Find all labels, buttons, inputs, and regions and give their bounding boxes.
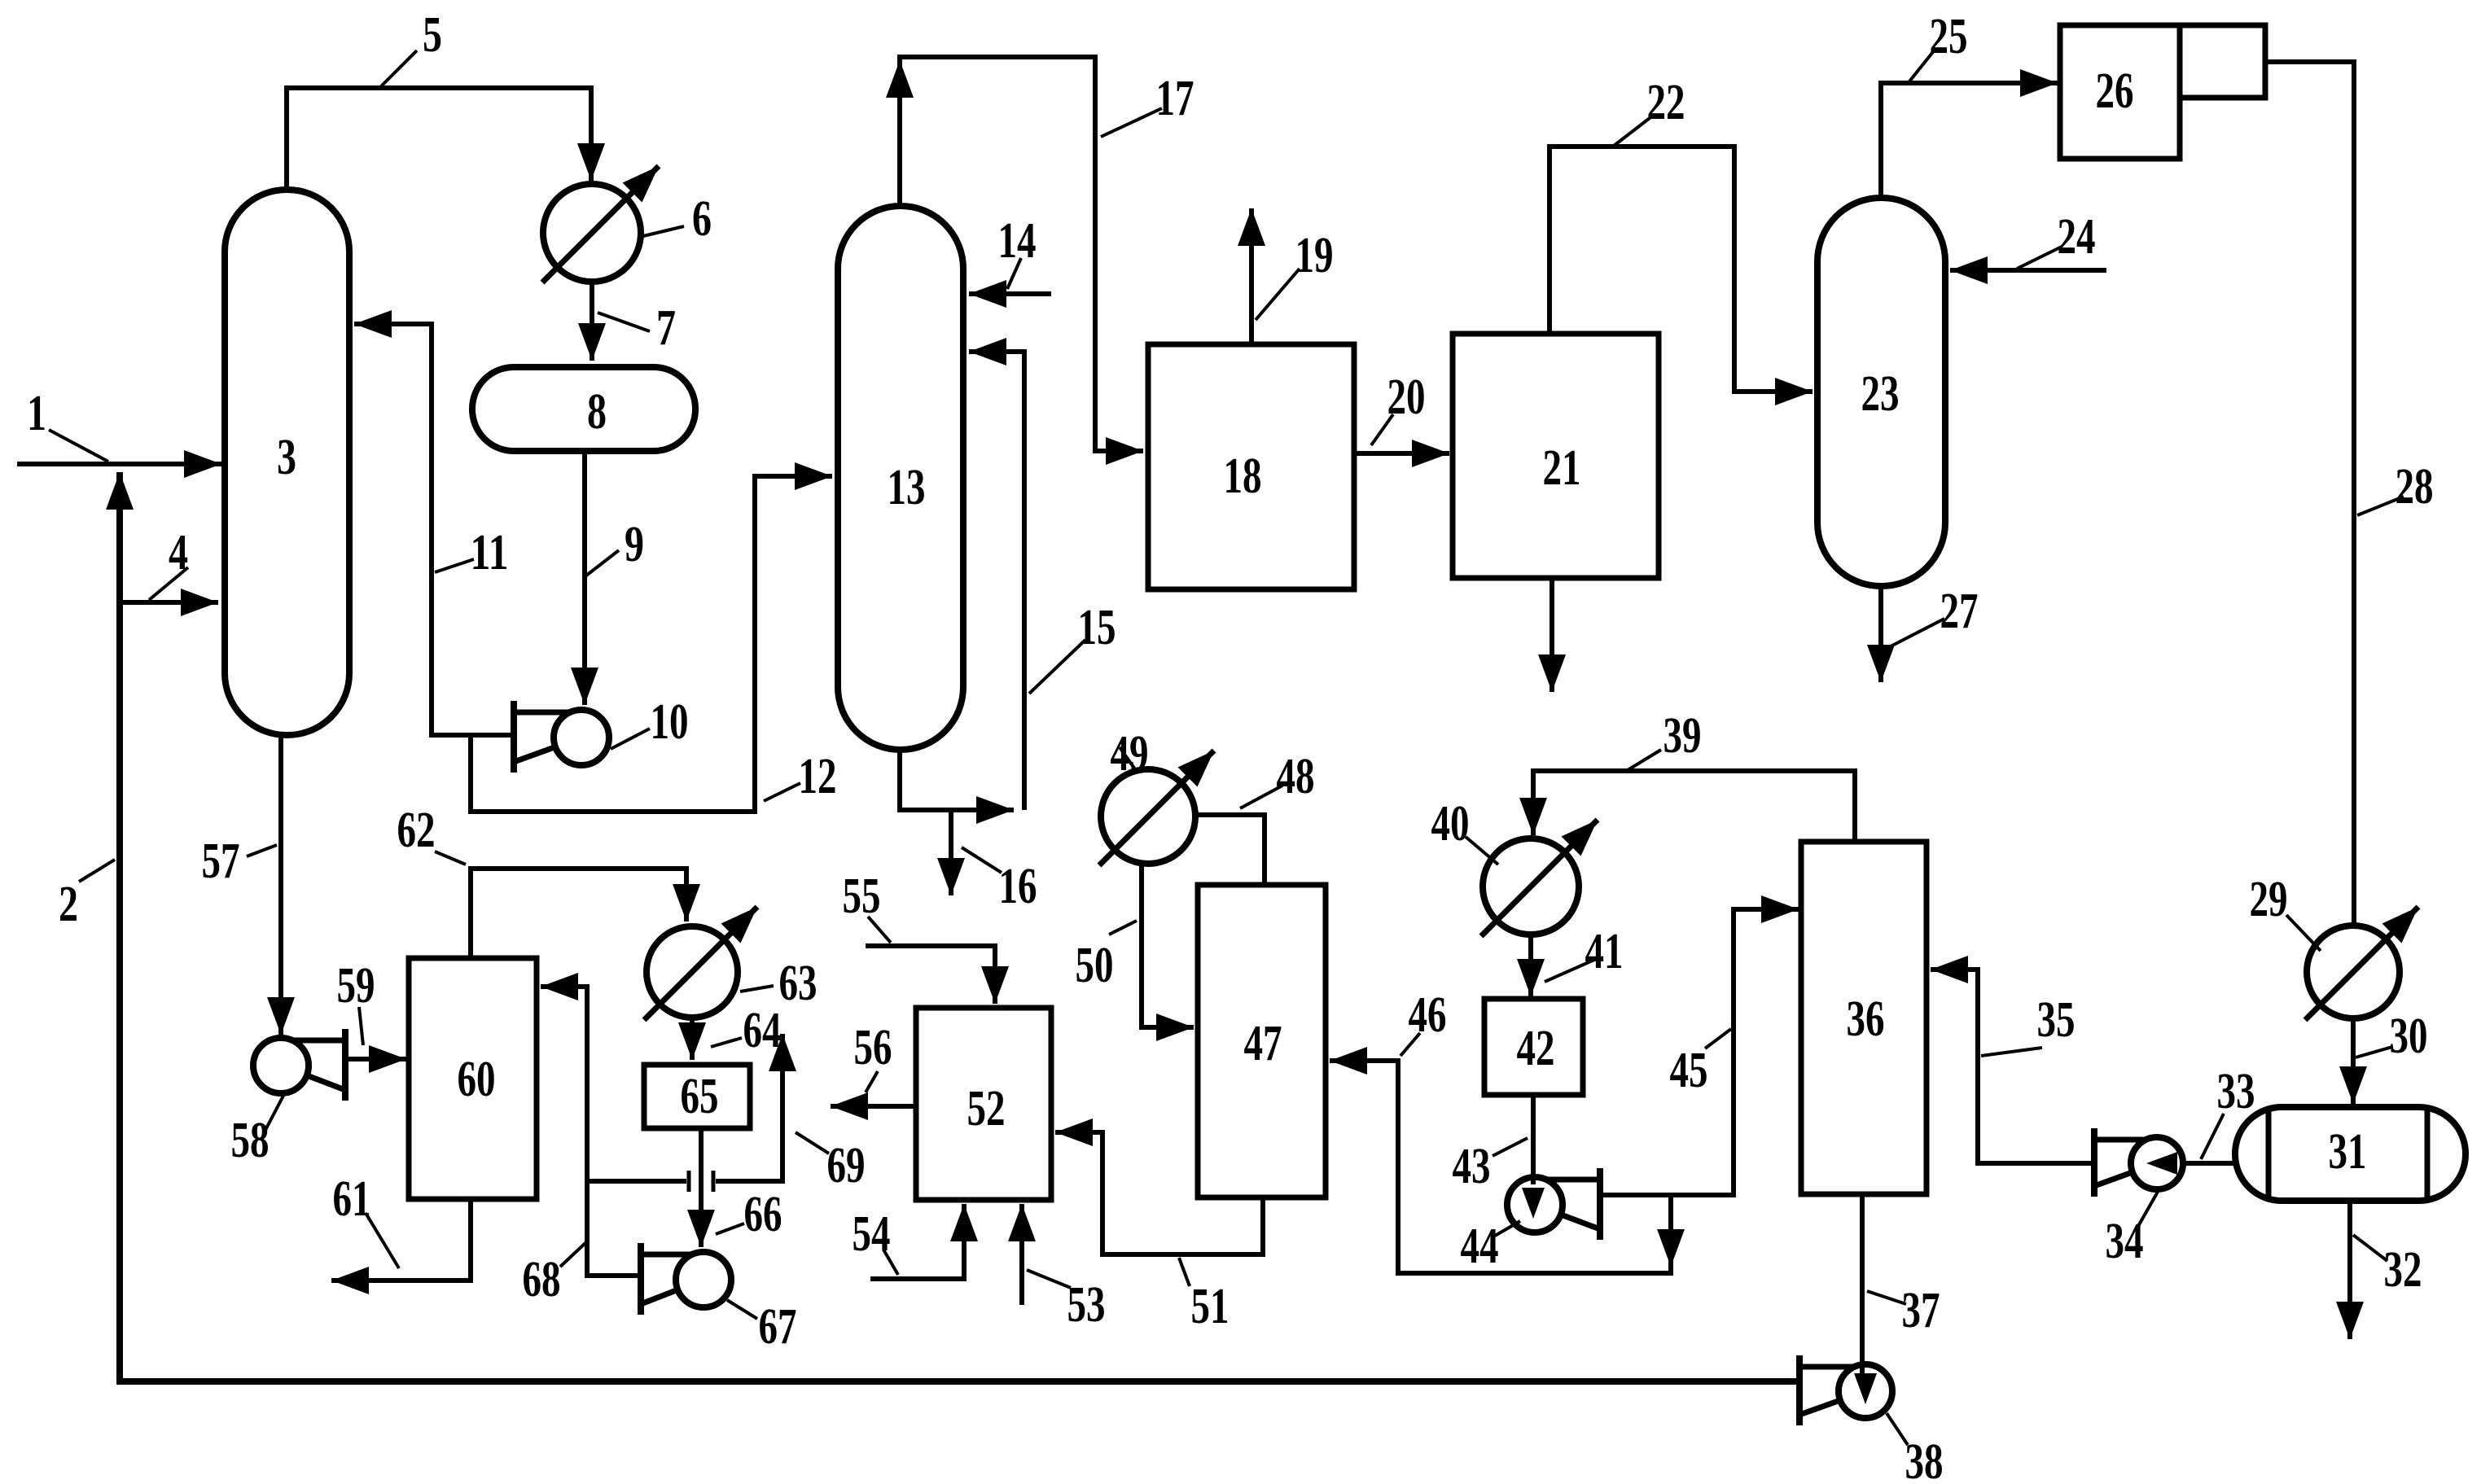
leader line for label 35 xyxy=(1981,1048,2042,1056)
svg-text:37: 37 xyxy=(1902,1283,1940,1338)
wire stream 54 (into box 52 bottom) xyxy=(870,1204,964,1279)
svg-text:11: 11 xyxy=(471,525,509,580)
leader line for label 34 xyxy=(2137,1192,2158,1228)
svg-text:14: 14 xyxy=(998,213,1037,269)
leader line for label 2 xyxy=(79,860,115,882)
leader line for label 12 xyxy=(764,783,800,801)
wire stream 57 (column 3 bottoms to pump 58) xyxy=(278,733,283,1035)
svg-text:58: 58 xyxy=(231,1113,270,1168)
wire stream 69 (branch upward, jumps over line 66) xyxy=(587,1034,782,1181)
wire stream 27 (column 23 bottoms) xyxy=(1878,586,1883,682)
arrowhead on stream 17 riser xyxy=(886,60,914,98)
svg-text:21: 21 xyxy=(1543,440,1581,496)
wire stream 66 (box 65 to pump 67) xyxy=(699,1128,704,1247)
wire stream 33 (drum 31 to pump 34) xyxy=(2183,1161,2235,1166)
wire stream 32 (drum 31 bottoms) xyxy=(2347,1201,2352,1339)
leader line for label 6 xyxy=(643,226,684,236)
svg-text:54: 54 xyxy=(853,1206,891,1262)
svg-text:36: 36 xyxy=(1847,992,1885,1047)
svg-text:32: 32 xyxy=(2384,1242,2422,1298)
svg-text:1: 1 xyxy=(27,386,46,441)
leader line for label 58 xyxy=(265,1096,283,1132)
svg-text:57: 57 xyxy=(202,834,240,889)
box 26 xyxy=(2060,25,2180,159)
leader line for label 37 xyxy=(1867,1291,1906,1304)
svg-text:69: 69 xyxy=(827,1138,866,1193)
leader line for label 15 xyxy=(1029,640,1085,694)
svg-text:35: 35 xyxy=(2037,992,2076,1048)
wire stream 62 (box 60 top to exchanger 63) xyxy=(471,869,686,958)
svg-text:39: 39 xyxy=(1663,708,1702,764)
svg-text:10: 10 xyxy=(651,694,689,750)
wire stream 20 (box 18 to box 21) xyxy=(1354,451,1449,456)
leader line for label 43 xyxy=(1493,1138,1528,1156)
box 36 xyxy=(1801,842,1927,1194)
wire stream 19 (box 18 vent) xyxy=(1249,208,1254,344)
svg-text:31: 31 xyxy=(2329,1124,2367,1180)
wire stream 14 (into column 13) xyxy=(969,291,1051,296)
pump 34 xyxy=(2094,1128,2183,1197)
pump 67 xyxy=(641,1243,731,1315)
wire stream 24 (into column 23) xyxy=(1950,268,2106,273)
svg-text:23: 23 xyxy=(1861,366,1900,422)
pump 44 xyxy=(1507,1168,1600,1240)
drum 31 left head line xyxy=(2266,1110,2272,1198)
wire stream 7 (exchanger 6 to drum 8) xyxy=(590,282,594,361)
wire stream 55 (into box 52 top) xyxy=(866,946,995,1004)
svg-text:20: 20 xyxy=(1387,370,1426,425)
svg-text:30: 30 xyxy=(2390,1009,2428,1064)
svg-text:2: 2 xyxy=(59,877,78,932)
svg-text:53: 53 xyxy=(1067,1277,1106,1333)
wire stream 43 (box 42 to pump 44) xyxy=(1531,1095,1536,1184)
leader line for label 56 xyxy=(866,1071,878,1092)
svg-text:56: 56 xyxy=(854,1020,892,1075)
svg-text:17: 17 xyxy=(1156,71,1194,126)
svg-text:38: 38 xyxy=(1905,1434,1944,1484)
leader line for label 49 xyxy=(1120,747,1135,769)
leader line for label 67 xyxy=(727,1300,757,1319)
pump 58 xyxy=(253,1029,345,1101)
svg-text:63: 63 xyxy=(779,956,818,1011)
wire column 13 bottoms header xyxy=(900,750,1014,810)
leader line for label 44 xyxy=(1495,1221,1520,1236)
svg-text:9: 9 xyxy=(625,517,644,572)
leader line for label 69 xyxy=(796,1132,829,1153)
leader line for label 40 xyxy=(1466,837,1498,865)
leader line for label 53 xyxy=(1027,1270,1071,1288)
svg-text:40: 40 xyxy=(1431,796,1470,851)
heat exchanger 29 xyxy=(2305,907,2418,1020)
leader line for label 9 xyxy=(586,550,619,576)
svg-text:8: 8 xyxy=(587,384,607,440)
leader line for label 57 xyxy=(247,845,277,856)
svg-text:24: 24 xyxy=(2058,209,2096,265)
wire stream 12 (to column 13) xyxy=(471,476,832,812)
wire stream 46 (branch back to box 47) xyxy=(1330,1061,1671,1273)
leader line for label 54 xyxy=(883,1250,898,1275)
wire stream 9 (drum 8 to pump 10) xyxy=(582,451,587,705)
svg-text:16: 16 xyxy=(999,859,1037,914)
svg-text:55: 55 xyxy=(843,869,881,924)
drum 31 right head line xyxy=(2425,1110,2431,1198)
wire stream 68 (pump 67 discharge to box 60) xyxy=(541,987,641,1276)
drum 31 (horizontal capsule) xyxy=(2235,1107,2466,1201)
leader line for label 7 xyxy=(598,313,650,331)
leader line for label 11 xyxy=(435,559,474,572)
leader line for label 25 xyxy=(1909,49,1935,81)
svg-text:25: 25 xyxy=(1930,9,1968,64)
wire stream 15 (riser into column 13) xyxy=(969,352,1024,810)
svg-text:27: 27 xyxy=(1940,584,1979,639)
svg-text:26: 26 xyxy=(2096,63,2134,119)
leader line for label 45 xyxy=(1705,1029,1731,1048)
leader line for label 28 xyxy=(2357,497,2404,515)
leader line for label 46 xyxy=(1400,1033,1420,1056)
leader line for label 16 xyxy=(962,847,1002,873)
leader line for label 62 xyxy=(435,851,466,865)
svg-text:51: 51 xyxy=(1191,1279,1230,1334)
leader line for label 68 xyxy=(560,1242,586,1267)
svg-text:12: 12 xyxy=(799,749,837,804)
svg-text:3: 3 xyxy=(277,430,296,485)
column 3 (capsule vessel) xyxy=(225,190,349,735)
leader line for label 1 xyxy=(49,430,108,462)
box 42 xyxy=(1484,999,1583,1095)
wire box 21 bottom outlet xyxy=(1550,578,1554,692)
leader line for label 63 xyxy=(740,986,774,992)
svg-text:18: 18 xyxy=(1224,449,1262,504)
leader line for label 14 xyxy=(1007,258,1021,289)
svg-text:34: 34 xyxy=(2106,1214,2144,1269)
svg-text:49: 49 xyxy=(1111,726,1149,781)
wire stream 37 (box 36 bottoms to pump 38) xyxy=(1860,1194,1865,1384)
svg-text:7: 7 xyxy=(656,300,676,356)
wire stream 11 (pump 10 discharge back to column 3) xyxy=(354,324,514,735)
wire stream 48 (exchanger 49 to box 47) xyxy=(1194,815,1265,882)
svg-text:47: 47 xyxy=(1244,1016,1282,1071)
leader line for label 64 xyxy=(711,1038,742,1047)
leader line for label 22 xyxy=(1614,116,1653,146)
leader line for label 17 xyxy=(1101,108,1162,137)
svg-text:4: 4 xyxy=(169,525,188,580)
svg-text:62: 62 xyxy=(397,803,436,858)
leader line for label 32 xyxy=(2353,1235,2387,1261)
heat exchanger 63 xyxy=(644,907,757,1020)
heat exchanger 6 xyxy=(542,166,659,282)
pump 38 xyxy=(1799,1355,1892,1425)
svg-text:67: 67 xyxy=(759,1299,797,1355)
svg-text:42: 42 xyxy=(1517,1021,1555,1076)
heat exchanger 40 xyxy=(1481,820,1598,936)
svg-text:33: 33 xyxy=(2217,1064,2255,1119)
wire stream 22 (box 21 to column 23) xyxy=(1550,147,1813,392)
svg-text:64: 64 xyxy=(743,1003,782,1058)
leader line for label 66 xyxy=(716,1224,744,1234)
leader line for label 10 xyxy=(611,729,650,749)
svg-text:13: 13 xyxy=(888,460,926,515)
wire stream 28 (box 26 to exchanger 29) xyxy=(2265,62,2354,923)
svg-text:66: 66 xyxy=(744,1187,782,1242)
leader line for label 20 xyxy=(1371,414,1393,445)
arrowhead of stream 37 inside pump 38 xyxy=(1854,1373,1877,1404)
wire stream 35 (pump 34 discharge to box 36) xyxy=(1931,970,2094,1163)
wire stream 17 (column 13 overhead to box 18) xyxy=(900,57,1143,451)
box 60 xyxy=(409,958,537,1199)
wire stream 2 (recycle from bottom header up into line 1) xyxy=(120,472,1799,1381)
leader line for label 59 xyxy=(359,1007,363,1045)
wire stream 51 (box 47 bottoms to box 52) xyxy=(1055,1132,1263,1254)
svg-text:41: 41 xyxy=(1585,924,1624,979)
svg-text:45: 45 xyxy=(1670,1043,1708,1098)
wire stream 4 (branch into column 3) xyxy=(120,600,218,605)
leader line for label 55 xyxy=(868,917,891,943)
leader line for label 5 xyxy=(381,50,417,86)
drum 8 (horizontal capsule) xyxy=(472,367,695,451)
svg-text:61: 61 xyxy=(333,1171,371,1227)
crossover ticks on stream 69 xyxy=(689,1171,713,1192)
svg-text:59: 59 xyxy=(337,958,375,1013)
wire stream 30 (exchanger 29 to drum 31) xyxy=(2351,1018,2356,1104)
leader line for label 4 xyxy=(149,567,188,600)
pump 10 xyxy=(514,701,609,773)
svg-text:60: 60 xyxy=(458,1052,496,1107)
leader line for label 50 xyxy=(1109,921,1137,935)
box 18 xyxy=(1148,344,1354,589)
leader line for label 48 xyxy=(1240,786,1282,808)
leader line for label 19 xyxy=(1256,269,1300,320)
wire stream 64 (exchanger 63 to box 65) xyxy=(690,1018,695,1060)
svg-text:65: 65 xyxy=(681,1069,719,1124)
leader line for label 24 xyxy=(2017,247,2062,269)
box 52 xyxy=(916,1008,1051,1200)
svg-text:52: 52 xyxy=(967,1081,1006,1136)
svg-text:6: 6 xyxy=(692,191,712,247)
box 47 xyxy=(1198,885,1326,1197)
svg-text:68: 68 xyxy=(523,1252,561,1307)
svg-text:29: 29 xyxy=(2250,872,2288,927)
arrowhead on stream 46 down-branch xyxy=(1657,1229,1685,1267)
leader line for label 41 xyxy=(1545,960,1594,982)
svg-text:5: 5 xyxy=(423,7,442,63)
svg-text:50: 50 xyxy=(1076,938,1114,993)
svg-text:43: 43 xyxy=(1453,1139,1491,1194)
column 13 (capsule vessel) xyxy=(838,206,963,750)
box 26 side tab xyxy=(2180,25,2265,98)
wire stream 5 (column 3 overhead to exchanger 6) xyxy=(287,88,591,190)
wire stream 16 (bottoms draw-off) xyxy=(949,810,953,895)
leader line for label 38 xyxy=(1887,1413,1908,1445)
svg-text:22: 22 xyxy=(1647,75,1685,130)
leader line for label 27 xyxy=(1889,619,1944,647)
wire stream 41 (exchanger 40 to box 42) xyxy=(1528,935,1533,996)
heat exchanger 49 xyxy=(1099,751,1214,865)
leader line for label 51 xyxy=(1179,1258,1190,1286)
svg-text:48: 48 xyxy=(1277,749,1315,804)
svg-text:15: 15 xyxy=(1078,600,1116,655)
arrowhead of stream 43 inside pump 44 xyxy=(1522,1188,1545,1219)
wire stream 39 (box 36 top to exchanger 40) xyxy=(1533,771,1855,842)
leader line for label 39 xyxy=(1628,750,1661,770)
arrowhead of stream 33 inside pump 34 xyxy=(2146,1152,2177,1175)
wire stream 59 (pump 58 discharge to box 60) xyxy=(345,1057,406,1062)
wire stream 50 (exchanger 49 to box 47 side) xyxy=(1142,864,1194,1027)
column 23 (capsule vessel) xyxy=(1817,198,1945,586)
leader line for label 29 xyxy=(2286,915,2321,951)
box 65 xyxy=(644,1065,750,1128)
svg-text:28: 28 xyxy=(2396,459,2434,514)
leader line for label 61 xyxy=(366,1213,399,1268)
wire stream 53 (into box 52 bottom) xyxy=(1019,1204,1024,1305)
svg-text:19: 19 xyxy=(1295,228,1334,283)
wire stream 56 (box 52 side draw) xyxy=(831,1104,916,1109)
box 21 xyxy=(1453,334,1659,578)
svg-text:46: 46 xyxy=(1409,987,1447,1043)
wire stream 1 (feed into column 3) xyxy=(17,462,221,466)
leader line for label 30 xyxy=(2356,1047,2392,1057)
svg-text:44: 44 xyxy=(1461,1219,1499,1274)
wire stream 61 (box 60 bottoms draw) xyxy=(331,1199,471,1280)
wire stream 45 (pump 44 discharge to box 36) xyxy=(1600,909,1799,1195)
wire stream 25 (column 23 overhead to box 26) xyxy=(1881,83,2058,198)
leader line for label 33 xyxy=(2201,1114,2224,1159)
